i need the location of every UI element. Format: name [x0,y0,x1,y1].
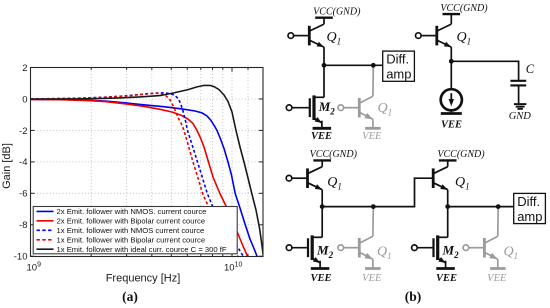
VEE bar M2 BR [436,267,455,270]
legend row 1 [37,210,54,212]
wire emitter to node TR [450,47,452,61]
node BR branch [496,204,501,209]
legend row 4 [37,239,54,241]
svg-text:VCC(GND): VCC(GND) [437,149,485,160]
transistor Q1 gray alt bottom-left [338,236,373,259]
transistor Q1 bottom-right stage2 [433,167,448,190]
node BL output [320,204,325,209]
svg-text:VEE: VEE [436,273,457,284]
svg-text:-4: -4 [19,157,27,168]
transistor M2 bottom-left [286,235,322,268]
VCC(GND) bottom-left supply [310,149,358,160]
x tick labels [27,262,243,274]
svg-text:-6: -6 [19,189,27,200]
curve: 1x EF ideal current source (black) [31,85,264,257]
svg-text:VCC(GND): VCC(GND) [310,149,358,160]
curve: 2x EF with NMOS (blue solid) [31,99,258,257]
svg-text:Diff.: Diff. [386,52,409,67]
wire node to capacitor [451,61,518,80]
svg-text:Frequency [Hz]: Frequency [Hz] [106,273,181,285]
svg-text:amp: amp [386,67,411,82]
wire VCC to collector BR [447,160,449,166]
curve: 1x EF with Bipolar (red dashed) [31,93,239,257]
transistor Q1 bottom-left stage1 [286,167,322,190]
node TL branch [371,63,376,68]
svg-text:VEE: VEE [362,131,382,142]
wire node to gray Q1 collector BL [372,207,374,237]
VEE bar gray BL [365,267,381,270]
VEE bar gray TL [365,127,381,130]
VEE bar M2 BL [311,267,330,270]
transistor Q1 gray alt bottom-right [463,236,498,259]
svg-text:0: 0 [22,94,27,105]
transistor M2 bottom-right [412,235,448,268]
wire node to gray Q1 collector BR [497,207,499,237]
wire gray emitter to VEE BL [372,259,374,268]
VEE bar M2 TL [313,127,332,130]
legend row 3 [37,229,54,231]
svg-text:2x Emit. follower with Bipolar: 2x Emit. follower with Bipolar current c… [57,217,206,226]
axis ticks [31,68,264,257]
wire VCC to collector TL [323,18,325,24]
wire node to M2 drain BR [447,207,449,238]
svg-text:-10: -10 [14,252,28,263]
transistor Q1 top-right [416,24,452,47]
svg-text:C: C [526,62,535,76]
svg-text:Gain [dB]: Gain [dB] [1,143,13,189]
legend box [33,207,237,254]
svg-text:1x Emit. follower with ideal c: 1x Emit. follower with ideal curr. courc… [57,245,227,254]
transistor Q1 gray alt top-left [338,96,373,119]
svg-text:VEE: VEE [441,119,462,130]
wire node to Diff amp BR [448,206,514,208]
legend row 5 [37,248,54,250]
transistor M2 top-left [286,95,324,128]
wire emitter to node BR [447,190,449,207]
VCC(GND) bottom-right supply [437,149,485,160]
transistor Q1 top-left [288,24,324,47]
y tick labels [14,63,28,263]
wire node to gray Q1 collector TL [372,65,374,96]
wire node to Diff amp TL [324,64,383,66]
legend row 2 [37,220,54,222]
VEE bar TR [441,112,462,115]
VCC(GND) top-left supply [313,7,361,18]
svg-text:2: 2 [22,63,27,74]
node BL branch [371,204,376,209]
wire emitter to node BL [321,190,323,207]
curve: 2x EF with Bipolar (red solid) [31,99,248,257]
svg-text:VEE: VEE [310,273,331,284]
Diff. amp box bottom [514,193,546,224]
svg-text:VEE: VEE [487,273,507,284]
svg-text:VEE: VEE [362,273,382,284]
svg-text:(a): (a) [122,289,138,304]
svg-text:1x Emit. follower with Bipolar: 1x Emit. follower with Bipolar current c… [57,236,206,245]
svg-text:GND: GND [509,111,532,122]
wire gray emitter to VEE BR [497,259,499,268]
wire VCC to collector TR [450,14,452,24]
node TL output [322,63,327,68]
plot gridlines [31,68,264,257]
wire node to M2 drain TL [323,65,325,97]
node TR output [449,59,454,64]
wire stage1 to stage2 base [322,178,433,206]
svg-text:1x Emit. follower with NMOS cu: 1x Emit. follower with NMOS current cour… [57,226,205,235]
VCC(GND) top-right supply [440,3,488,14]
svg-text:-2: -2 [19,126,27,137]
wire emitter to node TL [323,47,325,65]
svg-text:amp: amp [517,209,542,224]
svg-text:VCC(GND): VCC(GND) [440,3,488,14]
svg-text:2x Emit. follower with NMOS. c: 2x Emit. follower with NMOS. current cou… [57,207,207,216]
node BR output [445,204,450,209]
wire node to M2 drain BL [321,207,323,238]
wire VCC to collector BL [321,160,323,166]
svg-text:-8: -8 [19,220,27,231]
Diff. amp box top [383,51,415,82]
ideal current source I1 [441,61,462,113]
ground GND [509,104,532,122]
svg-text:Diff.: Diff. [517,194,540,209]
capacitor C [510,81,526,104]
curve: 1x EF with NMOS (blue dashed) [31,93,244,258]
svg-text:VCC(GND): VCC(GND) [313,7,361,18]
svg-text:VEE: VEE [311,131,332,142]
svg-text:(b): (b) [405,289,422,304]
wire gray emitter to VEE TL [372,119,374,128]
VEE bar gray BR [490,267,506,270]
axes box [31,68,264,257]
